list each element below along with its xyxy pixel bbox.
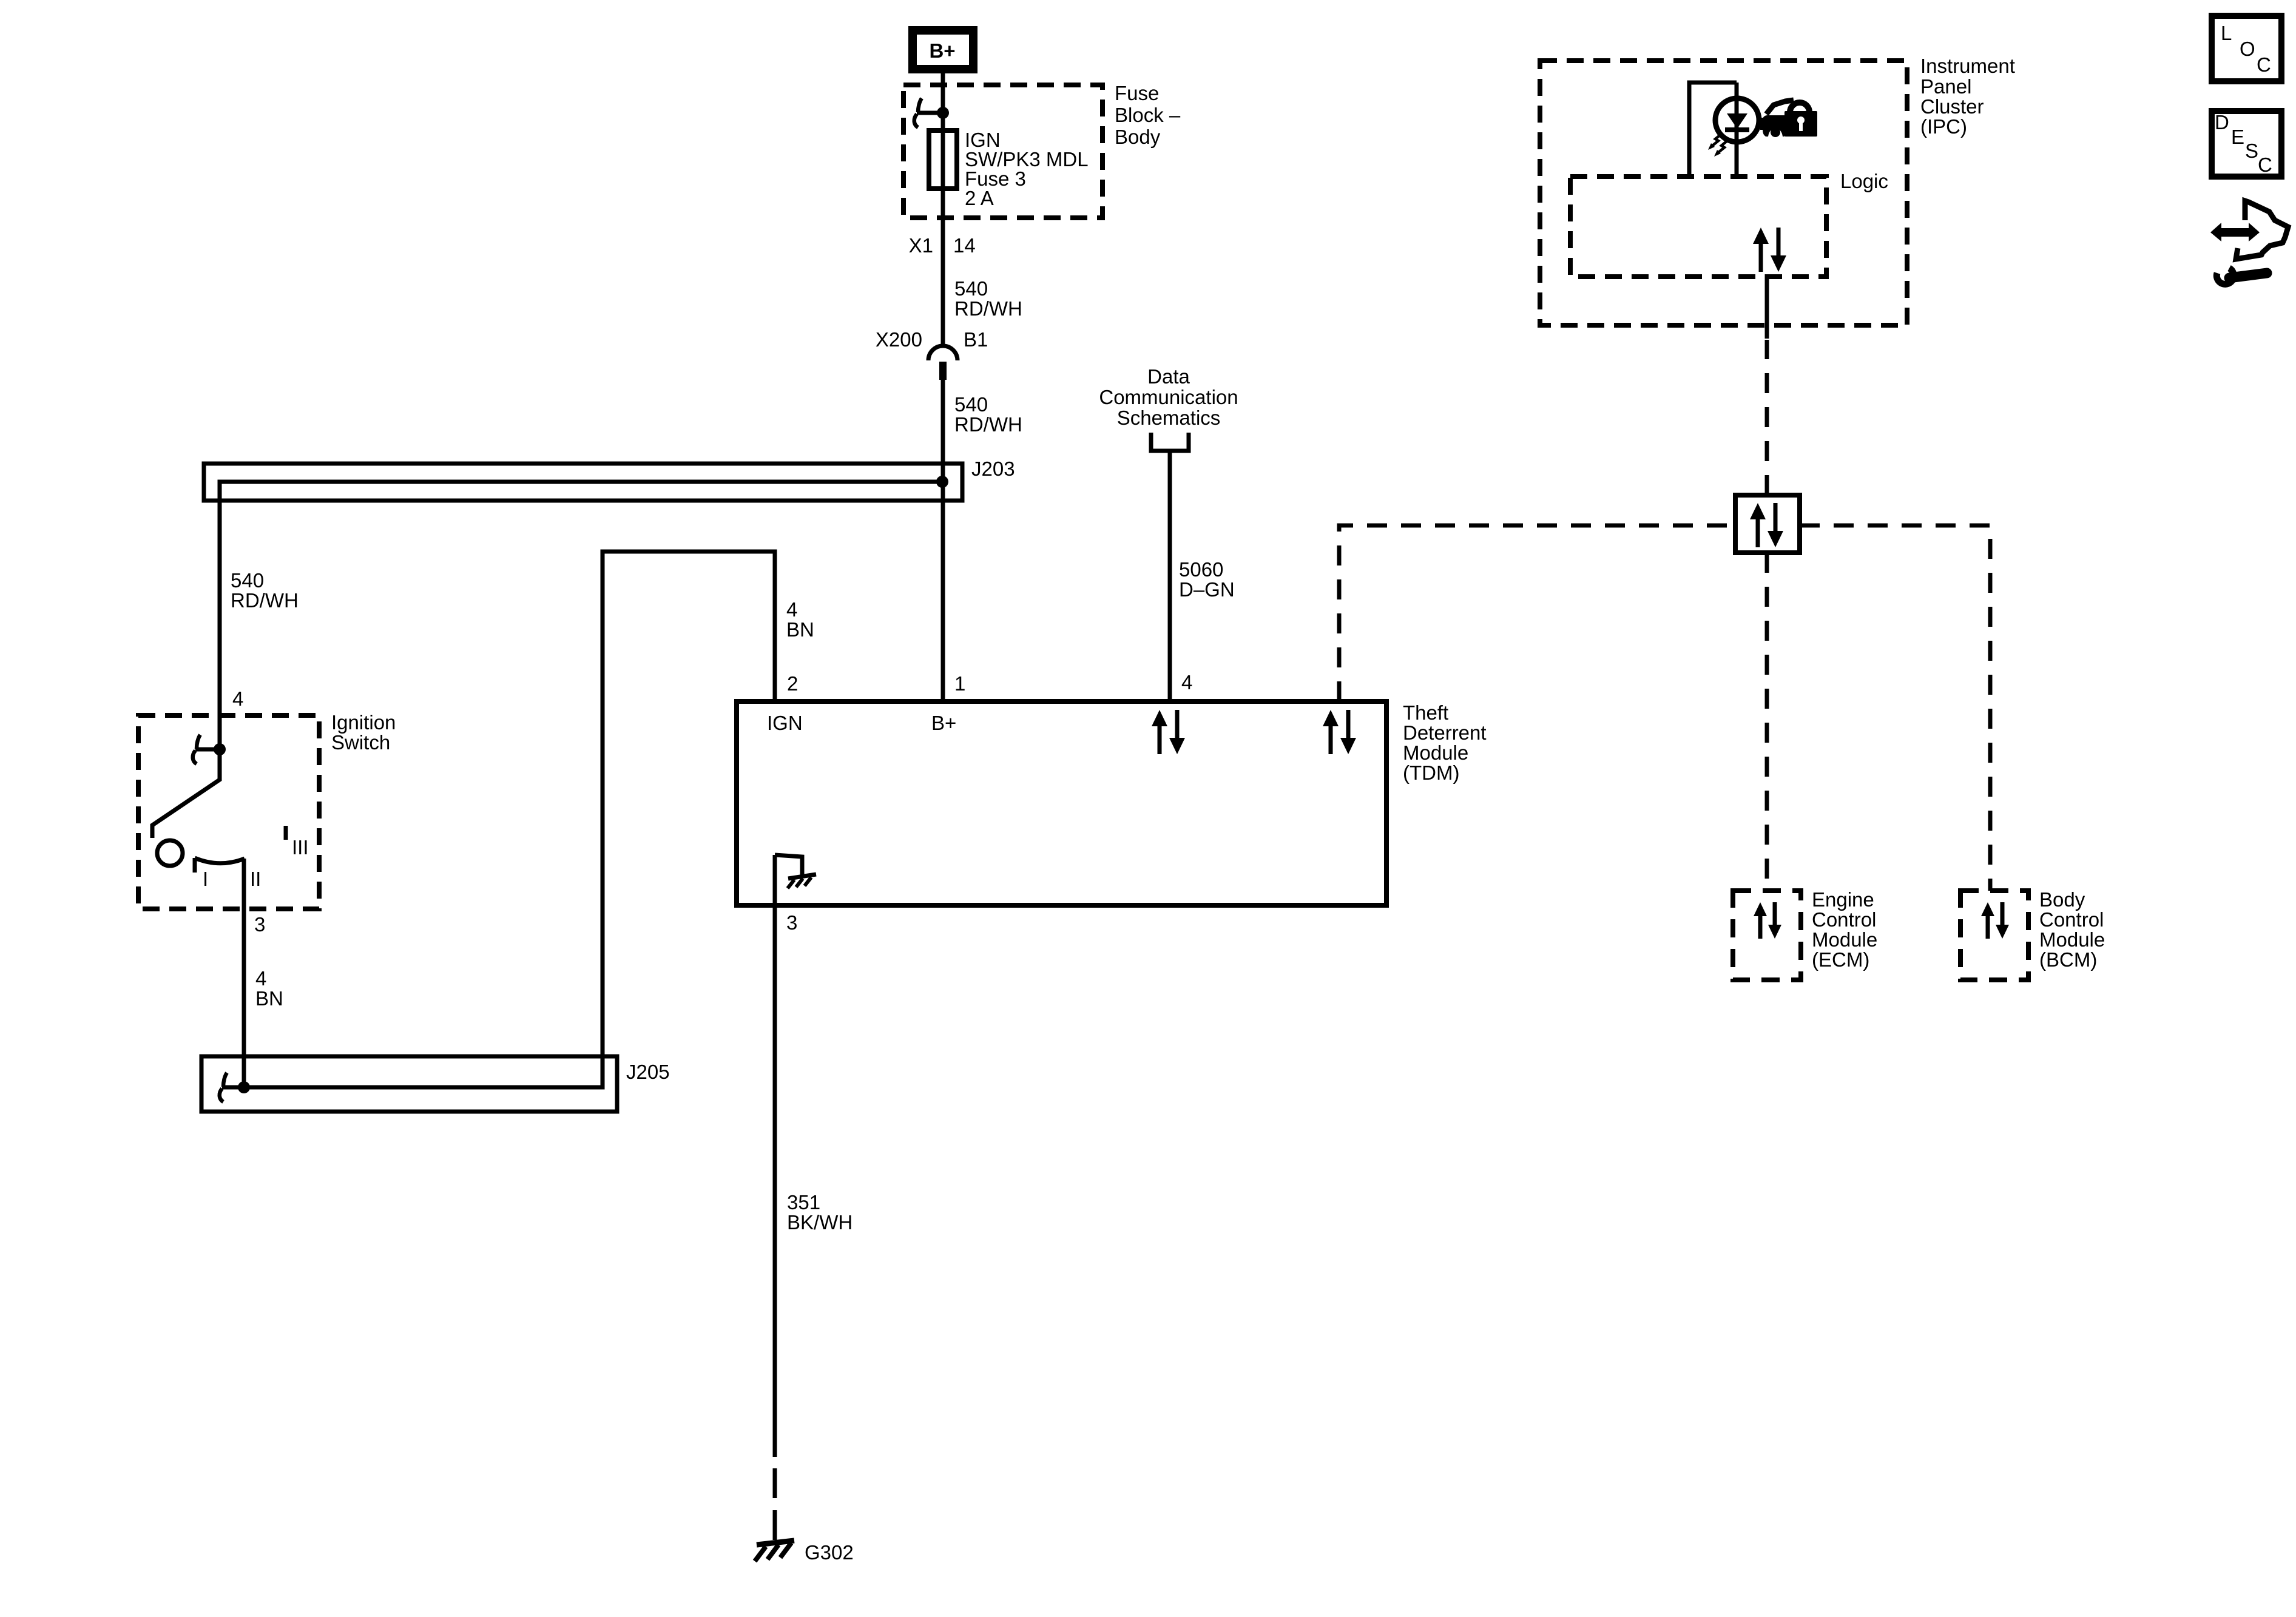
- junction dot J205: [238, 1081, 250, 1093]
- svg-text:BN: BN: [255, 987, 283, 1010]
- svg-text:540: 540: [954, 277, 988, 300]
- repair info icon: double arrow, part outline, wrench: [2210, 201, 2288, 284]
- svg-text:4: 4: [255, 967, 266, 990]
- security car-with-lock indicator icon: [1760, 100, 1817, 137]
- junction dot J203: [936, 476, 948, 488]
- junction dot in fuse block: [937, 107, 949, 119]
- svg-text:Switch: Switch: [331, 731, 390, 754]
- svg-text:540: 540: [954, 393, 988, 416]
- svg-text:Schematics: Schematics: [1117, 407, 1221, 429]
- svg-text:Instrument: Instrument: [1920, 55, 2015, 77]
- svg-text:D: D: [2215, 111, 2229, 133]
- svg-text:540: 540: [231, 569, 264, 592]
- svg-text:Module: Module: [2039, 928, 2105, 951]
- svg-text:(ECM): (ECM): [1812, 948, 1869, 971]
- svg-text:X1: X1: [909, 234, 933, 257]
- svg-text:II: II: [250, 868, 261, 890]
- svg-text:D–GN: D–GN: [1179, 578, 1235, 601]
- switch blade: [152, 749, 220, 838]
- serial data arrows in ECM: [1754, 902, 1781, 939]
- svg-text:3: 3: [786, 911, 797, 934]
- arrows in junction box: [1750, 503, 1783, 547]
- terminal hook in J205: [220, 1073, 227, 1102]
- svg-text:J203: J203: [971, 457, 1015, 480]
- svg-text:Body: Body: [1115, 126, 1161, 148]
- wire 5060 D-GN to TDM pin 4: [1168, 451, 1172, 701]
- serial data arrows in logic box: [1753, 228, 1786, 272]
- solid wire into IPC logic: [1765, 274, 1769, 339]
- svg-text:Module: Module: [1403, 741, 1468, 764]
- svg-text:G302: G302: [805, 1541, 854, 1564]
- serial data arrows at TDM pin 4: [1152, 710, 1185, 754]
- ignition switch dashed box: [138, 715, 319, 909]
- svg-text:Control: Control: [1812, 908, 1876, 931]
- svg-text:Cluster: Cluster: [1920, 95, 1984, 118]
- svg-text:L: L: [2221, 22, 2232, 44]
- TDM pin 3 wire (351 BK/WH): [773, 855, 777, 1457]
- LED diode triangle and cathode bar: [1727, 113, 1747, 129]
- svg-text:(IPC): (IPC): [1920, 115, 1967, 138]
- svg-text:III: III: [292, 836, 309, 859]
- wire inside J203 to left branch down to ignition switch: [220, 482, 942, 749]
- svg-text:Communication: Communication: [1099, 386, 1238, 408]
- svg-text:BK/WH: BK/WH: [787, 1211, 853, 1234]
- svg-text:4: 4: [786, 598, 797, 621]
- instrument panel cluster IPC dashed box: [1540, 61, 1907, 325]
- fuse IGN SW/PK3 MDL Fuse 3 2A: [929, 130, 957, 189]
- svg-text:RD/WH: RD/WH: [954, 297, 1022, 320]
- svg-text:Engine: Engine: [1812, 888, 1874, 911]
- LOC reference box: [2212, 16, 2281, 81]
- DESC reference box: [2212, 111, 2281, 177]
- security indicator LED branch loop: [1689, 83, 1737, 177]
- dashed wire junction box down to ECM: [1765, 553, 1769, 891]
- dashed serial data wire TDM to junction: [1339, 525, 1735, 701]
- switch travel arc: [195, 858, 245, 863]
- svg-text:Module: Module: [1812, 928, 1877, 951]
- svg-text:351: 351: [787, 1191, 820, 1214]
- svg-text:Deterrent: Deterrent: [1403, 721, 1487, 744]
- terminal hook at fuse feed: [914, 98, 922, 127]
- svg-text:Logic: Logic: [1840, 170, 1888, 192]
- dashed wire junction box up to IPC: [1765, 340, 1769, 495]
- wire B+ to fuse to J203 to TDM pin 1 (540 RD/WH): [941, 73, 945, 346]
- chassis ground G302: [757, 1541, 794, 1545]
- svg-text:IGN: IGN: [767, 712, 803, 734]
- svg-text:1: 1: [954, 672, 965, 695]
- svg-text:Ignition: Ignition: [331, 711, 396, 734]
- fuse block - body dashed box: [903, 85, 1102, 218]
- svg-text:Panel: Panel: [1920, 75, 1971, 98]
- junction dot ignition switch: [214, 743, 226, 755]
- engine control module ECM dashed box: [1733, 891, 1801, 980]
- svg-text:J205: J205: [626, 1061, 670, 1083]
- body control module BCM dashed box: [1960, 891, 2028, 980]
- svg-text:E: E: [2231, 126, 2244, 148]
- svg-text:Body: Body: [2039, 888, 2085, 911]
- theft deterrent module TDM box: [737, 701, 1386, 905]
- svg-text:14: 14: [953, 234, 976, 257]
- serial data junction box: [1735, 495, 1800, 553]
- svg-text:4: 4: [232, 687, 243, 710]
- svg-text:(BCM): (BCM): [2039, 948, 2097, 971]
- svg-text:B1: B1: [964, 328, 988, 351]
- svg-text:3: 3: [254, 913, 265, 936]
- svg-text:2 A: 2 A: [965, 187, 994, 209]
- svg-text:Fuse: Fuse: [1115, 82, 1159, 104]
- svg-text:X200: X200: [876, 328, 922, 351]
- terminal hook at ignition feed: [193, 735, 200, 764]
- chassis ground symbol inside TDM: [788, 874, 816, 879]
- svg-text:4: 4: [1181, 671, 1192, 694]
- IPC logic dashed box: [1570, 177, 1826, 277]
- ignition switch pin 3 wire down to J205: [242, 859, 246, 1087]
- svg-text:BN: BN: [786, 618, 814, 641]
- switch pivot circle: [157, 840, 183, 866]
- position tick III: [284, 826, 288, 840]
- svg-text:B+: B+: [931, 712, 956, 734]
- wire J205 up and over to TDM pin 2 (4 BN): [244, 552, 775, 1087]
- svg-text:Theft: Theft: [1403, 701, 1448, 724]
- svg-text:B+: B+: [929, 39, 955, 62]
- serial data arrows at TDM right pin: [1323, 710, 1356, 754]
- svg-text:Block –: Block –: [1115, 104, 1181, 126]
- svg-text:I: I: [203, 868, 208, 890]
- svg-text:5060: 5060: [1179, 558, 1223, 581]
- splice pack J205: [201, 1056, 617, 1112]
- serial data arrows in BCM: [1981, 902, 2009, 939]
- LED circle: [1715, 98, 1759, 142]
- LED light emission arrows: [1712, 133, 1722, 146]
- battery feed terminal B+: [913, 30, 973, 69]
- svg-text:Control: Control: [2039, 908, 2104, 931]
- svg-text:S: S: [2245, 140, 2258, 162]
- svg-text:O: O: [2240, 38, 2255, 60]
- dashed wire to ground G302: [773, 1468, 777, 1540]
- svg-text:C: C: [2257, 53, 2271, 76]
- svg-text:(TDM): (TDM): [1403, 761, 1459, 784]
- svg-text:Data: Data: [1147, 365, 1190, 388]
- svg-text:RD/WH: RD/WH: [231, 589, 299, 612]
- splice pack J203: [204, 464, 962, 501]
- svg-text:2: 2: [787, 672, 798, 695]
- svg-text:RD/WH: RD/WH: [954, 413, 1022, 436]
- dashed wire junction box to BCM: [1800, 525, 1990, 891]
- TDM internal case ground: [775, 855, 802, 876]
- svg-text:C: C: [2258, 154, 2272, 176]
